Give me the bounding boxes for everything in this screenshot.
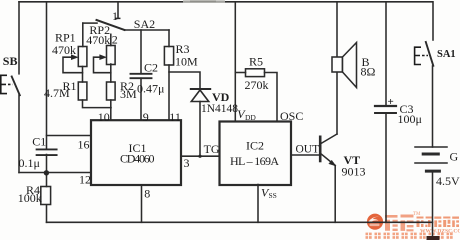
IC U2 box IC2 — [220, 122, 292, 186]
svg-text:CD4060: CD4060 — [120, 152, 155, 166]
wire SA2 contact 1 — [116, 2, 119, 19]
wire R4 bottom — [46, 205, 48, 222]
svg-text:TM: TM — [413, 212, 421, 217]
wire diode VD top branch — [169, 72, 200, 89]
node junction C1-R4 — [44, 170, 49, 175]
watermark brand text — [385, 215, 414, 232]
wire VT emitter down — [334, 166, 336, 223]
wire IC1 pin 8 — [141, 185, 143, 222]
svg-text:8: 8 — [144, 187, 150, 201]
transistor Q1 VT base bar — [319, 137, 322, 161]
wire SA1 top from border — [432, 2, 434, 40]
speaker B — [332, 57, 343, 72]
wire IC1 pin 3 to IC2 TG — [181, 155, 220, 157]
svg-text:DD: DD — [245, 113, 256, 122]
wire C2 top — [140, 30, 142, 74]
svg-text:10: 10 — [98, 110, 110, 124]
svg-text:SA1: SA1 — [437, 49, 456, 60]
wire C1 bottom — [46, 155, 48, 173]
diode VD — [191, 90, 208, 102]
wire SA2 output — [125, 29, 170, 31]
wire to IC1 pin 12 — [19, 172, 91, 174]
wire R5 right to OSC — [265, 73, 278, 122]
wire C3 top from border — [385, 2, 387, 106]
wire VT collector up to speaker — [336, 72, 338, 134]
svg-text:R5: R5 — [249, 55, 263, 69]
svg-text:16: 16 — [78, 137, 90, 151]
capacitor C2 — [131, 74, 152, 78]
svg-text:8Ω: 8Ω — [361, 65, 376, 79]
faint smudge top — [183, 0, 225, 3]
svg-text:4.5V: 4.5V — [436, 174, 460, 188]
wire SA2 left — [83, 22, 97, 24]
wire R3 top — [168, 30, 170, 47]
svg-text:0.47μ: 0.47μ — [137, 82, 164, 96]
wire speaker top from border — [336, 2, 338, 57]
svg-text:3M: 3M — [120, 87, 137, 101]
svg-text:OSC: OSC — [280, 109, 303, 123]
svg-text:2: 2 — [112, 33, 118, 47]
svg-text:SA2: SA2 — [134, 17, 155, 31]
wiper RP2 — [94, 57, 111, 72]
pushbutton SA1 actuator — [415, 47, 428, 64]
svg-text:4.7M: 4.7M — [44, 86, 70, 100]
wire C3 bottom — [385, 113, 387, 222]
wire to IC1 pin 16 — [47, 135, 92, 137]
svg-text:270k: 270k — [245, 78, 269, 92]
wire RP2 to R2 — [110, 64, 112, 82]
battery G plates — [415, 146, 447, 148]
wire battery bottom — [432, 171, 434, 240]
svg-text:1: 1 — [112, 9, 118, 23]
battery terminal blob — [427, 236, 440, 240]
wire R3 bottom to IC1 pin 11 — [168, 65, 170, 120]
wire top border — [19, 1, 433, 3]
svg-text:+: + — [388, 96, 394, 108]
capacitor C1 — [37, 149, 57, 155]
wire R1 bottom — [83, 100, 112, 108]
wire bottom bus — [47, 221, 433, 223]
wire left border upper — [18, 2, 20, 74]
svg-text:10M: 10M — [175, 54, 198, 68]
wire IC2 VSS — [257, 185, 259, 223]
wire RP1 to R1 — [82, 67, 84, 83]
resistor R4 — [41, 187, 51, 205]
svg-text:SB: SB — [3, 54, 18, 68]
wire RP1 top — [82, 23, 84, 46]
potentiometer RP2 — [107, 46, 116, 65]
svg-text:G: G — [450, 150, 459, 164]
wire SA2 contact 2 to RP2 — [110, 34, 112, 45]
resistor R3 — [164, 47, 173, 66]
wire R2 bottom to IC1 pin 10 — [110, 100, 112, 120]
svg-text:1N4148: 1N4148 — [201, 103, 238, 115]
svg-text:100k: 100k — [18, 191, 42, 205]
capacitor C3 — [375, 105, 396, 107]
switch SA2 arm — [97, 20, 125, 30]
svg-text:100μ: 100μ — [398, 112, 422, 126]
svg-text:470k: 470k — [52, 43, 76, 57]
potentiometer RP1 — [78, 47, 87, 67]
transistor VT emitter — [321, 154, 335, 166]
svg-text:470k: 470k — [86, 33, 110, 47]
svg-text:HL – 169A: HL – 169A — [230, 154, 279, 168]
wire R4 top — [46, 173, 48, 187]
resistor R5 — [246, 69, 265, 77]
svg-text:9013: 9013 — [342, 165, 366, 179]
wire left border lower — [18, 95, 20, 173]
wire SA1 to battery — [432, 66, 434, 147]
watermark logo circle — [367, 214, 383, 230]
resistor R1 — [78, 82, 87, 100]
wire C1 top from border — [46, 2, 48, 149]
svg-text:IC2: IC2 — [246, 139, 264, 153]
wire diode VD bottom — [199, 102, 201, 157]
switch SB — [12, 77, 20, 96]
wire R5 left — [235, 72, 245, 74]
node junction VD-TG — [198, 155, 201, 158]
pushbutton SB actuator — [1, 75, 13, 93]
svg-text:C1: C1 — [32, 134, 46, 148]
wire IC2 OUT to VT base — [291, 154, 321, 156]
IC U1 box IC1 — [91, 120, 181, 185]
svg-text:11: 11 — [169, 110, 181, 124]
svg-text:12: 12 — [79, 173, 91, 187]
switch SA1 arm — [426, 42, 434, 66]
svg-text:TG: TG — [204, 142, 220, 156]
svg-text:0.1μ: 0.1μ — [19, 156, 40, 170]
svg-text:9: 9 — [143, 110, 149, 124]
wiper RP1 — [63, 57, 83, 72]
resistor R2 — [107, 82, 116, 100]
svg-text:VD: VD — [212, 90, 230, 104]
watermark slogan — [366, 233, 453, 239]
svg-text:SS: SS — [269, 191, 277, 200]
svg-text:C2: C2 — [144, 60, 158, 74]
wire C2 bottom to IC1 pin 9 — [140, 78, 142, 120]
transistor VT collector — [321, 134, 337, 144]
svg-text:3: 3 — [184, 156, 190, 170]
svg-text:OUT: OUT — [296, 143, 320, 155]
wire VDD from top border — [234, 2, 236, 122]
